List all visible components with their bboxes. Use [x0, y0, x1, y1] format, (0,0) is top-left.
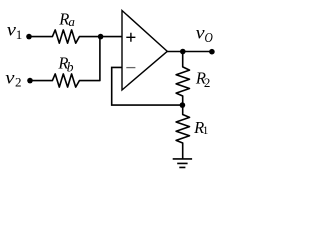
svg-text:b: b [67, 59, 74, 74]
svg-text:1: 1 [16, 27, 22, 42]
label Rb [57, 54, 73, 75]
resistor R2 from output down to feedback node [176, 52, 189, 106]
resistor Ra with wire from v1 to op-amp + input [29, 30, 122, 43]
label v2 [5, 69, 21, 89]
op-amp - input symbol [126, 67, 135, 69]
node v2 terminal dot [27, 78, 33, 84]
svg-text:O: O [205, 30, 213, 45]
output junction dot [180, 49, 186, 55]
svg-text:2: 2 [204, 75, 211, 90]
output terminal dot [209, 49, 215, 55]
svg-text:v: v [5, 69, 15, 88]
op-amp U1 triangle [122, 11, 167, 91]
svg-text:1: 1 [203, 125, 209, 137]
node v1 terminal dot [26, 34, 32, 40]
op-amp + input symbol [126, 33, 135, 42]
label vO [196, 23, 213, 45]
label R1 [193, 118, 209, 137]
svg-text:2: 2 [15, 74, 22, 89]
resistor R1 from feedback node down to ground [176, 105, 189, 159]
output wire [167, 51, 213, 53]
ground symbol [173, 159, 192, 168]
wire from - input to feedback node [112, 67, 183, 105]
svg-text:a: a [68, 14, 75, 29]
label Ra [58, 9, 75, 29]
label R2 [195, 69, 211, 91]
label v1 [7, 21, 22, 42]
resistor Rb with wire from v2 up to node A [30, 37, 100, 88]
node A junction dot [98, 34, 104, 40]
feedback junction dot [180, 102, 186, 108]
